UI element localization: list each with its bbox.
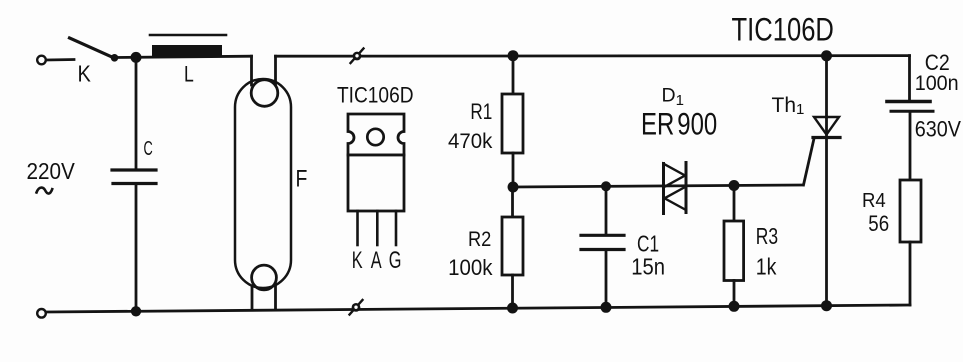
wire top left segment — [114, 56, 252, 57]
svg-text:470k: 470k — [448, 129, 493, 153]
U1 pin G lead — [395, 211, 398, 245]
switch K blade — [70, 38, 113, 57]
svg-text:F: F — [296, 165, 308, 192]
tube top-left lead — [250, 56, 253, 85]
svg-text:100n: 100n — [915, 71, 959, 95]
fluorescent tube F outline — [235, 79, 291, 288]
tube bottom-right lead — [274, 286, 277, 310]
thyristor Th1 cathode bar — [813, 136, 840, 139]
junction dot middle node — [508, 182, 519, 193]
junction dot bottom of R2 — [507, 303, 518, 314]
svg-text:56: 56 — [868, 213, 889, 237]
wire below R2 — [511, 275, 514, 308]
wire below R4 — [909, 242, 912, 305]
wire top right corner and down to C2 — [908, 56, 911, 100]
transistor package U1 body — [348, 155, 404, 211]
thyristor Th1 cathode wire — [825, 117, 828, 306]
wire below R1 — [512, 153, 515, 187]
wire above R3 — [733, 186, 736, 222]
svg-text:1k: 1k — [756, 254, 777, 280]
diac D1 lower triangle — [665, 187, 687, 211]
junction dot bottom of Th1 — [821, 300, 832, 311]
junction dot bottom left branch — [131, 306, 141, 316]
resistor R3 — [724, 221, 744, 281]
svg-text:D1: D1 — [662, 85, 684, 110]
wire top of R1 — [512, 56, 515, 94]
wire below R3 — [733, 281, 736, 307]
svg-text:R3: R3 — [756, 225, 778, 250]
svg-text:TIC106D: TIC106D — [732, 13, 834, 48]
svg-text:15n: 15n — [631, 253, 665, 280]
wire from top terminal to switch — [46, 58, 74, 61]
capacitor C2 bottom plate — [891, 110, 933, 113]
svg-text:220V: 220V — [27, 158, 76, 184]
capacitor C2 top plate — [887, 100, 930, 104]
terminal top-left — [37, 56, 46, 65]
transistor package U1 tab — [348, 114, 404, 155]
thyristor Th1 triangle — [814, 117, 839, 135]
AC tilde symbol — [37, 188, 53, 194]
wire break slash top — [351, 49, 364, 64]
diac D1 upper triangle — [664, 164, 686, 188]
svg-text:R2: R2 — [468, 228, 491, 252]
svg-text:Th1: Th1 — [772, 94, 805, 118]
svg-text:ER900: ER900 — [641, 106, 717, 141]
U1 pin A lead — [376, 211, 379, 245]
junction dot top of R1 — [508, 50, 519, 61]
tube bottom-left lead — [251, 286, 254, 310]
diac D1 left bar — [662, 164, 665, 214]
terminal bottom-left — [37, 309, 46, 318]
svg-text:TIC106D: TIC106D — [337, 83, 414, 108]
svg-text:R1: R1 — [470, 100, 492, 125]
capacitor C bottom plate — [113, 182, 156, 185]
junction dot top of R3 — [729, 180, 740, 191]
svg-text:K: K — [352, 247, 363, 274]
junction dot top of Th1 — [821, 50, 832, 61]
capacitor C top plate — [112, 168, 156, 171]
svg-text:R4: R4 — [862, 190, 886, 212]
tube bottom filament circle — [252, 265, 277, 290]
capacitor C1 bottom plate — [581, 248, 624, 251]
junction dot at switch/lamp branch — [131, 52, 142, 63]
wire middle horizontal — [513, 185, 803, 187]
wire above C1 — [605, 186, 608, 234]
transistor package U1 mounting hole — [367, 129, 383, 145]
resistor R4 — [900, 180, 921, 242]
junction dot top of C1 — [601, 181, 611, 191]
junction dot bottom of R3 — [729, 301, 740, 312]
wire above R2 — [511, 187, 514, 217]
tube top filament circle — [251, 80, 278, 107]
wire between C2 and R4 — [909, 113, 912, 180]
svg-text:L: L — [184, 63, 194, 87]
wire below C1 — [605, 251, 608, 307]
diac D1 right bar — [685, 163, 688, 213]
wire break slash bottom — [350, 300, 363, 315]
inductor L top line — [150, 34, 226, 37]
svg-text:100k: 100k — [448, 255, 493, 280]
vertical wire left branch lower — [135, 185, 138, 311]
svg-text:630V: 630V — [915, 117, 962, 141]
svg-text:K: K — [78, 60, 92, 87]
vertical wire left branch upper — [135, 57, 138, 169]
thyristor Th1 anode wire — [825, 56, 828, 117]
wire top main segment — [276, 54, 910, 57]
resistor R1 — [502, 94, 523, 153]
svg-text:A: A — [371, 247, 382, 274]
wire bottom main — [46, 305, 910, 312]
capacitor C1 top plate — [581, 234, 624, 237]
inductor L core bar — [152, 45, 222, 57]
thyristor Th1 gate lead — [804, 139, 815, 186]
svg-text:C: C — [144, 137, 153, 160]
U1 pin K lead — [356, 211, 359, 245]
switch K contact dot — [111, 54, 119, 62]
tube top-right lead — [274, 56, 277, 85]
svg-text:G: G — [389, 247, 402, 274]
resistor R2 — [502, 217, 523, 275]
junction dot bottom of C1 — [601, 302, 612, 313]
